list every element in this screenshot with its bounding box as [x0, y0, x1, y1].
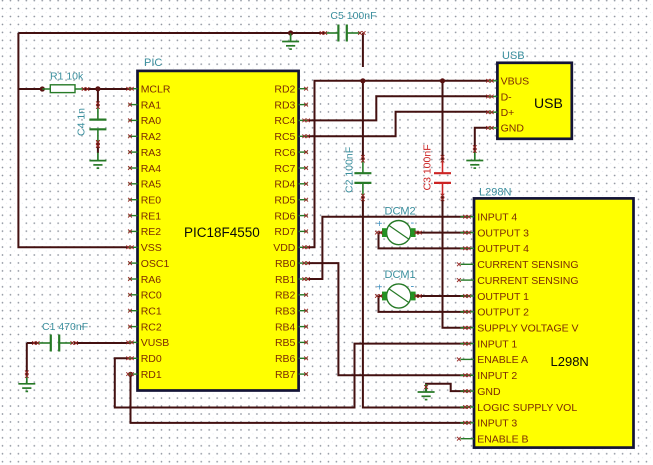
pin PIC RC2: [128, 321, 162, 333]
svg-text:RA4: RA4: [141, 163, 162, 175]
wire RD0 to INPUT 1: [115, 344, 468, 408]
wire C1 right to VUSB: [74, 342, 131, 344]
pin USB GND: [486, 123, 524, 135]
motor DCM2: [375, 221, 422, 245]
resistor R1: [42, 85, 89, 93]
pin USB D-: [486, 91, 512, 103]
pin L298N ENABLE B 15: [457, 434, 529, 446]
wire RB1 to INPUT 4: [308, 217, 469, 279]
svg-text:C3 100nF: C3 100nF: [422, 144, 434, 190]
wire MCLR node down to C4: [97, 89, 99, 106]
pin USB D+: [486, 107, 514, 119]
pin L298N OUTPUT 2 7: [460, 307, 529, 319]
wire DCM1 left terminal to OUTPUT 2: [379, 296, 469, 312]
svg-text:DCM1: DCM1: [385, 269, 416, 281]
svg-text:GND: GND: [477, 386, 501, 398]
svg-text:RD1: RD1: [141, 369, 162, 381]
svg-text:RE2: RE2: [141, 226, 162, 238]
wire RC4 to D-: [308, 96, 490, 120]
wire top ground rail horizontal: [18, 32, 290, 34]
svg-text:OSC1: OSC1: [141, 258, 170, 270]
ground C4: [89, 153, 106, 169]
wire C1 left: [27, 342, 38, 344]
svg-text:RE1: RE1: [141, 210, 162, 222]
wire USB ground attach x mark: [473, 145, 477, 149]
pin L298N INPUT 1 9: [460, 338, 517, 350]
pin PIC RC5: [274, 131, 309, 143]
svg-text:RC4: RC4: [274, 115, 295, 127]
pin PIC RB6: [275, 353, 308, 365]
svg-text:RD6: RD6: [274, 210, 295, 222]
pin PIC RB3: [275, 306, 308, 318]
svg-text:L298N: L298N: [479, 187, 511, 199]
svg-text:RC7: RC7: [274, 163, 295, 175]
svg-text:DCM2: DCM2: [385, 206, 416, 218]
svg-text:RB0: RB0: [275, 258, 296, 270]
wire DCM2 left terminal stub: [379, 232, 383, 234]
capacitor C4: [89, 106, 106, 143]
wire RD1 to INPUT 3: [131, 374, 469, 423]
pin PIC RC7: [274, 163, 308, 175]
svg-text:RD4: RD4: [274, 179, 295, 191]
node junction R1 left: [40, 86, 45, 91]
pin L298N INPUT 2 11: [460, 370, 517, 382]
svg-text:RA0: RA0: [141, 115, 162, 127]
svg-text:C4 1n: C4 1n: [76, 108, 88, 136]
pin PIC RB2: [275, 290, 308, 302]
svg-text:OUTPUT 1: OUTPUT 1: [477, 291, 529, 303]
pin PIC RA4: [128, 163, 161, 175]
pin PIC RB7: [275, 369, 308, 381]
wire DCM1 right terminal to OUTPUT 1: [415, 295, 468, 297]
wire R1 to MCLR: [83, 88, 131, 90]
wire C2 bottom to LOGIC SUPPLY VOL: [363, 197, 468, 408]
op-amp U1 PIC18F4550 body: [138, 71, 299, 391]
wire top rail to C5 left: [291, 32, 325, 34]
svg-text:OUTPUT 3: OUTPUT 3: [477, 227, 529, 239]
svg-text:+: +: [377, 282, 383, 293]
ground L298N: [418, 384, 435, 400]
svg-text:CURRENT SENSING: CURRENT SENSING: [477, 275, 578, 287]
pin PIC RD3: [274, 99, 308, 111]
wire RB0 to INPUT 2: [308, 263, 469, 375]
wire +5V rail down to C3 top: [442, 81, 444, 160]
pin PIC MCLR: [126, 84, 171, 96]
svg-text:RD2: RD2: [274, 84, 295, 96]
svg-text:INPUT 2: INPUT 2: [477, 370, 517, 382]
pin L298N CURRENT SENSING 5: [457, 275, 579, 287]
pin PIC RC0: [128, 290, 162, 302]
svg-text:INPUT 3: INPUT 3: [477, 418, 517, 430]
wire +5V rail down to C2 top: [362, 81, 364, 160]
node junction +5V / C3: [440, 78, 445, 83]
wire C5 right down to +5V rail: [362, 33, 364, 67]
pin PIC RC4: [274, 115, 309, 127]
svg-text:GND: GND: [501, 123, 525, 135]
pin PIC VSS: [126, 242, 161, 254]
wire C1 ground attach x mark: [25, 371, 29, 375]
wire rail to R1: [18, 88, 43, 90]
svg-text:D-: D-: [501, 91, 513, 103]
pin PIC RC6: [274, 147, 308, 159]
ground USB: [466, 153, 483, 169]
pin PIC RB1: [275, 274, 310, 286]
driver U2 L298N body: [474, 198, 634, 447]
svg-text:RD7: RD7: [274, 226, 295, 238]
svg-text:C2 100nF: C2 100nF: [344, 147, 356, 193]
svg-text:RB5: RB5: [275, 337, 296, 349]
wire DCM1 left terminal stub: [379, 295, 383, 297]
svg-text:RA3: RA3: [141, 147, 162, 159]
wire USB GND to ground: [475, 128, 490, 153]
wire left rail down to VSS: [18, 33, 129, 247]
svg-text:VUSB: VUSB: [141, 337, 170, 349]
pin PIC RA1: [128, 99, 161, 111]
node junction RD1: [128, 372, 133, 377]
wire RC5 to D+: [308, 112, 490, 137]
svg-text:-: -: [411, 280, 415, 292]
svg-text:RC5: RC5: [274, 131, 295, 143]
ground C1: [18, 376, 35, 392]
pin PIC RD0: [126, 353, 162, 365]
pin L298N OUTPUT 4 3: [460, 243, 529, 255]
svg-text:RC2: RC2: [141, 321, 162, 333]
pin PIC RD1: [126, 369, 162, 381]
svg-text:USB: USB: [534, 95, 563, 111]
pin PIC RB0: [275, 258, 310, 270]
pin L298N OUTPUT 3 2: [460, 227, 529, 239]
wire L298N GND to ground: [426, 384, 468, 392]
svg-text:MCLR: MCLR: [141, 84, 171, 96]
pin PIC RE1: [128, 210, 161, 222]
svg-text:OUTPUT 2: OUTPUT 2: [477, 307, 529, 319]
capacitor C5: [324, 25, 360, 42]
svg-text:PIC18F4550: PIC18F4550: [184, 225, 260, 240]
svg-text:RC1: RC1: [141, 306, 162, 318]
svg-text:ENABLE A: ENABLE A: [477, 354, 528, 366]
wire L298N ground attach x mark: [424, 385, 428, 389]
svg-text:C5 100nF: C5 100nF: [330, 10, 376, 22]
svg-text:RD3: RD3: [274, 99, 295, 111]
svg-text:OUTPUT 4: OUTPUT 4: [477, 243, 529, 255]
svg-text:RA1: RA1: [141, 99, 162, 111]
svg-text:RB3: RB3: [275, 306, 296, 318]
pin PIC RA6: [128, 274, 161, 286]
svg-text:RA5: RA5: [141, 179, 162, 191]
svg-text:INPUT 1: INPUT 1: [477, 338, 517, 350]
svg-text:RD5: RD5: [274, 195, 295, 207]
pin PIC RB4: [275, 321, 308, 333]
pin PIC VUSB: [126, 337, 169, 349]
pin PIC RD7: [274, 226, 308, 238]
svg-text:D+: D+: [501, 107, 515, 119]
svg-text:VSS: VSS: [141, 242, 162, 254]
pin PIC RB5: [275, 337, 308, 349]
wire C4 ground attach x marks: [96, 141, 100, 145]
node junction MCLR / C4: [95, 86, 100, 91]
pin PIC RE0: [128, 195, 161, 207]
pin PIC RD4: [274, 179, 308, 191]
capacitor C2: [354, 160, 371, 197]
pin PIC RC1: [128, 306, 162, 318]
motor DCM1: [375, 284, 422, 308]
svg-text:VDD: VDD: [273, 242, 296, 254]
svg-text:RB1: RB1: [275, 274, 296, 286]
svg-text:RC0: RC0: [141, 290, 162, 302]
pin PIC RD5: [274, 195, 308, 207]
pin L298N INPUT 3 14: [460, 418, 517, 430]
svg-text:C1 470nF: C1 470nF: [42, 321, 88, 333]
svg-text:VBUS: VBUS: [501, 76, 530, 88]
pin PIC RE2: [128, 226, 161, 238]
svg-text:USB: USB: [502, 50, 525, 62]
pin L298N CURRENT SENSING 4: [457, 259, 579, 271]
pin USB VBUS: [486, 76, 529, 88]
svg-text:INPUT 4: INPUT 4: [477, 212, 517, 224]
capacitor C1: [37, 335, 73, 352]
svg-text:RA6: RA6: [141, 274, 162, 286]
pin L298N ENABLE A 10: [457, 354, 528, 366]
svg-text:CURRENT SENSING: CURRENT SENSING: [477, 259, 578, 271]
node junction top ground: [288, 30, 293, 35]
pin L298N LOGIC SUPPLY VOL 13: [460, 402, 577, 414]
svg-text:ENABLE B: ENABLE B: [477, 434, 528, 446]
svg-text:SUPPLY VOLTAGE V: SUPPLY VOLTAGE V: [477, 323, 578, 335]
pin PIC RD2: [274, 84, 308, 96]
wire C3 bottom to SUPPLY VOLTAGE V: [443, 197, 469, 328]
svg-text:RB6: RB6: [275, 353, 296, 365]
svg-text:PIC: PIC: [144, 57, 162, 69]
connector J1 USB body: [497, 63, 571, 139]
pin PIC VDD: [273, 242, 310, 254]
svg-text:RA2: RA2: [141, 131, 162, 143]
wire C4 bottom to ground: [97, 141, 99, 153]
wire DCM2 left terminal to OUTPUT 4: [379, 233, 469, 249]
svg-text:RB2: RB2: [275, 290, 296, 302]
ground top rail: [282, 34, 299, 50]
svg-text:RD0: RD0: [141, 353, 162, 365]
pin L298N OUTPUT 1 6: [460, 291, 529, 303]
pin PIC RA0: [128, 115, 161, 127]
pin L298N SUPPLY VOLTAGE V 8: [460, 323, 578, 335]
wire VDD up to VBUS: [308, 81, 490, 248]
svg-text:RC6: RC6: [274, 147, 295, 159]
pin PIC OSC1: [128, 258, 169, 270]
capacitor C3: [434, 160, 451, 197]
pin PIC RA5: [128, 179, 161, 191]
node junction +5V / C2: [360, 78, 365, 83]
svg-text:RB4: RB4: [275, 321, 296, 333]
svg-text:RE0: RE0: [141, 195, 162, 207]
svg-text:R1 10k: R1 10k: [50, 71, 84, 83]
svg-text:-: -: [411, 217, 415, 229]
svg-text:+: +: [377, 219, 383, 230]
pin L298N GND 12: [460, 386, 501, 398]
svg-text:L298N: L298N: [551, 354, 589, 369]
svg-text:LOGIC SUPPLY VOL: LOGIC SUPPLY VOL: [477, 402, 577, 414]
svg-text:RB7: RB7: [275, 369, 296, 381]
pin PIC RA3: [128, 147, 161, 159]
pin L298N INPUT 4 1: [460, 212, 517, 224]
pin PIC RA2: [128, 131, 161, 143]
wire DCM2 right terminal to OUTPUT 3: [415, 232, 468, 234]
wire C1 left down to ground: [26, 343, 28, 376]
pin PIC RD6: [274, 210, 308, 222]
